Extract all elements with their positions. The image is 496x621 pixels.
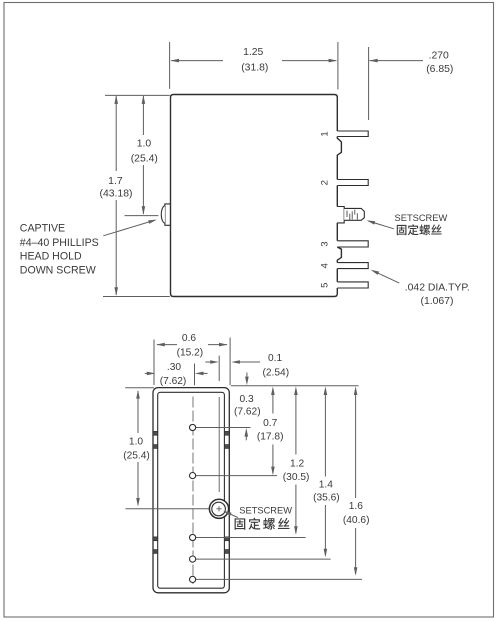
setscrew (bottom view) outer circle [209, 499, 228, 518]
dimension 1.25 (31.8) [171, 60, 223, 62]
svg-text:HEAD HOLD: HEAD HOLD [20, 251, 82, 263]
dimension 1.0 (25.4) [142, 96, 144, 135]
pin 4 (side view) [337, 263, 368, 269]
dimension 0.7 (17.8) [271, 386, 275, 395]
leader to captive screw [103, 220, 155, 236]
label 固定螺丝 (bottom view) [235, 518, 246, 529]
svg-text:(25.4): (25.4) [131, 154, 158, 165]
pin hole 3 (bottom view) [190, 534, 196, 540]
setscrew thread marks [347, 210, 357, 220]
pin 5 (side view) [337, 282, 368, 288]
svg-text:(2.54): (2.54) [262, 368, 289, 379]
setscrew center extension line (from 1.0 dim) [126, 508, 210, 510]
extension line left (bottom view) [153, 340, 155, 386]
svg-text:.30: .30 [167, 362, 181, 373]
svg-text:.042 DIA.TYP.: .042 DIA.TYP. [405, 282, 470, 293]
pin hole 2 leader line [196, 475, 277, 477]
pin 3 (side view) [337, 241, 368, 247]
relay body (side view) outline [171, 95, 342, 297]
extension line bottom-view top-left [125, 387, 154, 389]
vertical centerline through holes (dashed) [192, 397, 194, 585]
svg-text:5: 5 [320, 282, 331, 287]
dimension 1.2 (30.5) [294, 386, 298, 395]
dimension .270 (6.85) [369, 60, 423, 62]
svg-text:0.3: 0.3 [240, 394, 254, 405]
pin hole 1 (bottom view) [190, 424, 196, 430]
wall tick marks [153, 431, 158, 435]
svg-text:1.2: 1.2 [290, 459, 304, 470]
svg-text:(7.62): (7.62) [234, 407, 261, 418]
relay body (bottom view) inner outline [158, 392, 225, 588]
setscrew cross [216, 506, 221, 511]
extension line pin tips [368, 47, 370, 120]
leader to setscrew circle [225, 512, 238, 518]
pin hole 4 leader line [196, 558, 331, 560]
extension line body-left top [169, 42, 171, 89]
svg-text:SETSCREW: SETSCREW [395, 213, 448, 223]
pin hole 2 (bottom view) [190, 473, 196, 479]
svg-text:(35.6): (35.6) [313, 492, 340, 503]
dimension 1.4 (35.6) [324, 386, 328, 395]
setscrew column line above body [218, 356, 220, 381]
svg-text:1.0: 1.0 [137, 139, 152, 150]
extension line body top-left horizontal [105, 94, 170, 96]
dimension 0.3 (7.62) [246, 373, 248, 379]
svg-text:1.4: 1.4 [319, 480, 333, 491]
pin hole 4 (bottom view) [190, 556, 196, 562]
pin 1 (side view) [337, 131, 368, 137]
setscrew (side view) flange [337, 207, 344, 223]
top extension line (bottom view dims) [231, 385, 359, 387]
svg-text:(1.067): (1.067) [421, 296, 454, 307]
dimension 1.6 (40.6) [354, 386, 358, 395]
svg-text:(6.85): (6.85) [426, 64, 453, 75]
svg-text:SETSCREW: SETSCREW [239, 506, 292, 516]
captive screw head bump (left edge) [165, 204, 171, 225]
dimension .30 (7.62) [145, 372, 149, 374]
dimension 1.7 (43.18) [115, 96, 117, 171]
extension line screw centerline [125, 215, 159, 217]
extension line hole column [194, 364, 196, 386]
svg-text:(40.6): (40.6) [343, 515, 370, 526]
svg-text:.270: .270 [429, 50, 449, 61]
label 固定螺丝 (side view) [397, 225, 407, 235]
svg-text:3: 3 [320, 241, 331, 246]
svg-text:(31.8): (31.8) [241, 62, 268, 73]
svg-text:1.6: 1.6 [349, 501, 363, 512]
svg-text:2: 2 [320, 180, 331, 185]
pin hole 1 leader line [196, 427, 251, 429]
setscrew column line inside body [218, 397, 220, 492]
svg-text:(43.18): (43.18) [100, 188, 133, 199]
svg-text:1.25: 1.25 [243, 47, 263, 58]
dimension 1.0 (25.4) bottom view [137, 391, 139, 433]
relay body (bottom view) outer outline [153, 388, 229, 593]
extension line body-right top [337, 42, 339, 90]
pin 2 (side view) [337, 180, 368, 186]
svg-text:(17.8): (17.8) [257, 432, 284, 443]
svg-text:DOWN SCREW: DOWN SCREW [20, 264, 96, 276]
extension line body bottom-left horizontal [103, 296, 170, 298]
svg-text:0.1: 0.1 [268, 353, 282, 364]
svg-text:1.0: 1.0 [129, 436, 143, 447]
svg-text:CAPTIVE: CAPTIVE [20, 223, 65, 235]
svg-text:4: 4 [320, 262, 331, 268]
svg-text:1: 1 [320, 131, 331, 136]
setscrew (bottom view) inner circle [212, 502, 226, 516]
leader to pin diameter [373, 271, 400, 284]
pin hole 5 leader line [196, 578, 362, 580]
extension line right (bottom view) [229, 338, 231, 386]
setscrew (side view) barrel [344, 208, 364, 220]
svg-text:0.6: 0.6 [182, 333, 196, 344]
svg-text:(15.2): (15.2) [177, 348, 204, 359]
svg-text:(7.62): (7.62) [160, 376, 187, 387]
pin hole 5 (bottom view) [190, 576, 196, 582]
dimension 0.1 (2.54) [205, 361, 211, 363]
svg-text:#4–40 PHILLIPS: #4–40 PHILLIPS [20, 237, 99, 249]
dimension 0.6 (15.2) [157, 344, 177, 346]
pin hole 3 leader line [196, 537, 306, 539]
svg-text:(30.5): (30.5) [283, 472, 310, 483]
svg-text:(25.4): (25.4) [123, 450, 150, 461]
svg-text:1.7: 1.7 [108, 176, 123, 187]
leader to setscrew [368, 221, 394, 229]
svg-text:0.7: 0.7 [263, 418, 277, 429]
